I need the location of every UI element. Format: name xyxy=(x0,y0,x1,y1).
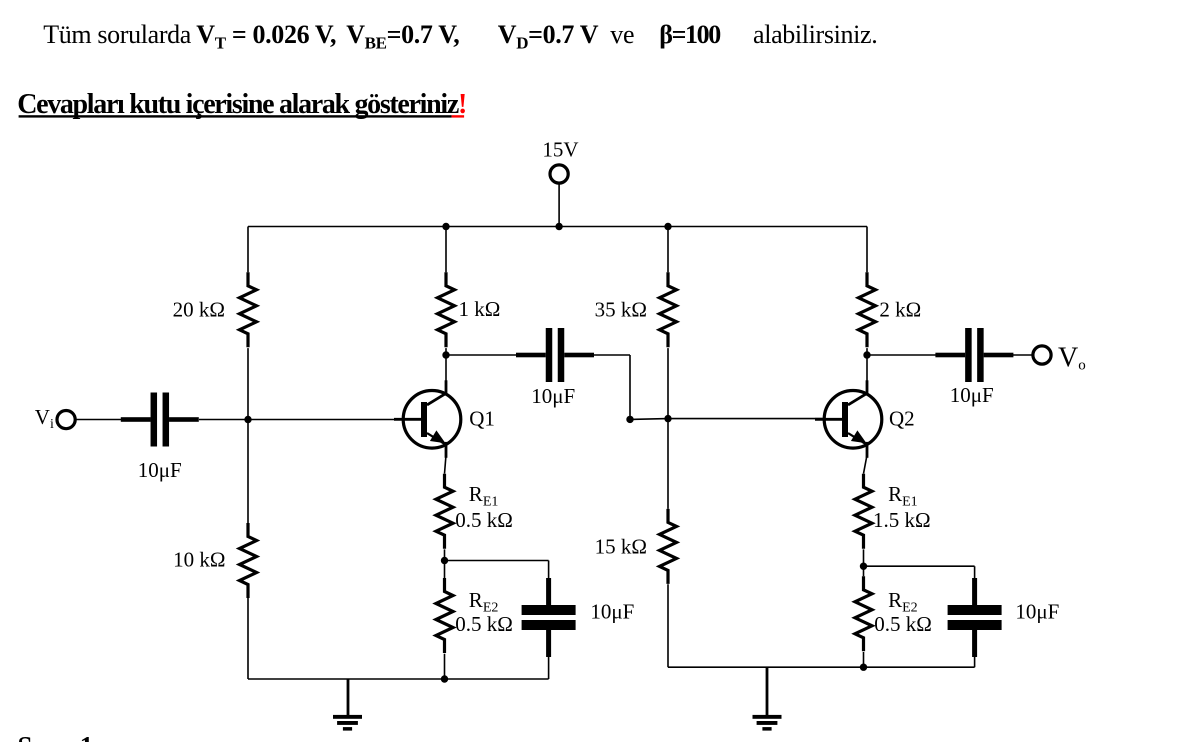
svg-text:10 kΩ: 10 kΩ xyxy=(173,548,225,572)
svg-text:0.5 kΩ: 0.5 kΩ xyxy=(455,612,513,636)
svg-text:20 kΩ: 20 kΩ xyxy=(173,298,225,322)
svg-text:VD=0.7 V: VD=0.7 V xyxy=(498,20,599,53)
svg-text:VBE=0.7 V,: VBE=0.7 V, xyxy=(346,20,459,53)
svg-text:35 kΩ: 35 kΩ xyxy=(595,298,647,322)
svg-text:10μF: 10μF xyxy=(950,383,994,407)
svg-text:10μF: 10μF xyxy=(590,599,634,623)
svg-text:15 kΩ: 15 kΩ xyxy=(595,535,647,559)
svg-text:Soru 1: Soru 1 xyxy=(18,731,94,742)
svg-text:10μF: 10μF xyxy=(138,458,182,482)
svg-text:ve: ve xyxy=(610,20,634,49)
svg-text:Tüm sorularda: Tüm sorularda xyxy=(43,20,192,49)
svg-text:10μF: 10μF xyxy=(1015,599,1059,623)
svg-text:1 kΩ: 1 kΩ xyxy=(459,297,501,321)
svg-text:Q2: Q2 xyxy=(889,407,915,431)
svg-text:alabilirsiniz.: alabilirsiniz. xyxy=(753,20,877,49)
svg-text:0.5 kΩ: 0.5 kΩ xyxy=(455,508,513,532)
svg-text:0.5 kΩ: 0.5 kΩ xyxy=(874,612,932,636)
svg-text:15V: 15V xyxy=(542,137,578,161)
svg-text:2 kΩ: 2 kΩ xyxy=(879,298,921,322)
svg-text:Q1: Q1 xyxy=(469,407,495,431)
svg-text:1.5 kΩ: 1.5 kΩ xyxy=(873,508,931,532)
svg-text:10μF: 10μF xyxy=(531,384,575,408)
svg-text:β=100: β=100 xyxy=(659,20,721,49)
